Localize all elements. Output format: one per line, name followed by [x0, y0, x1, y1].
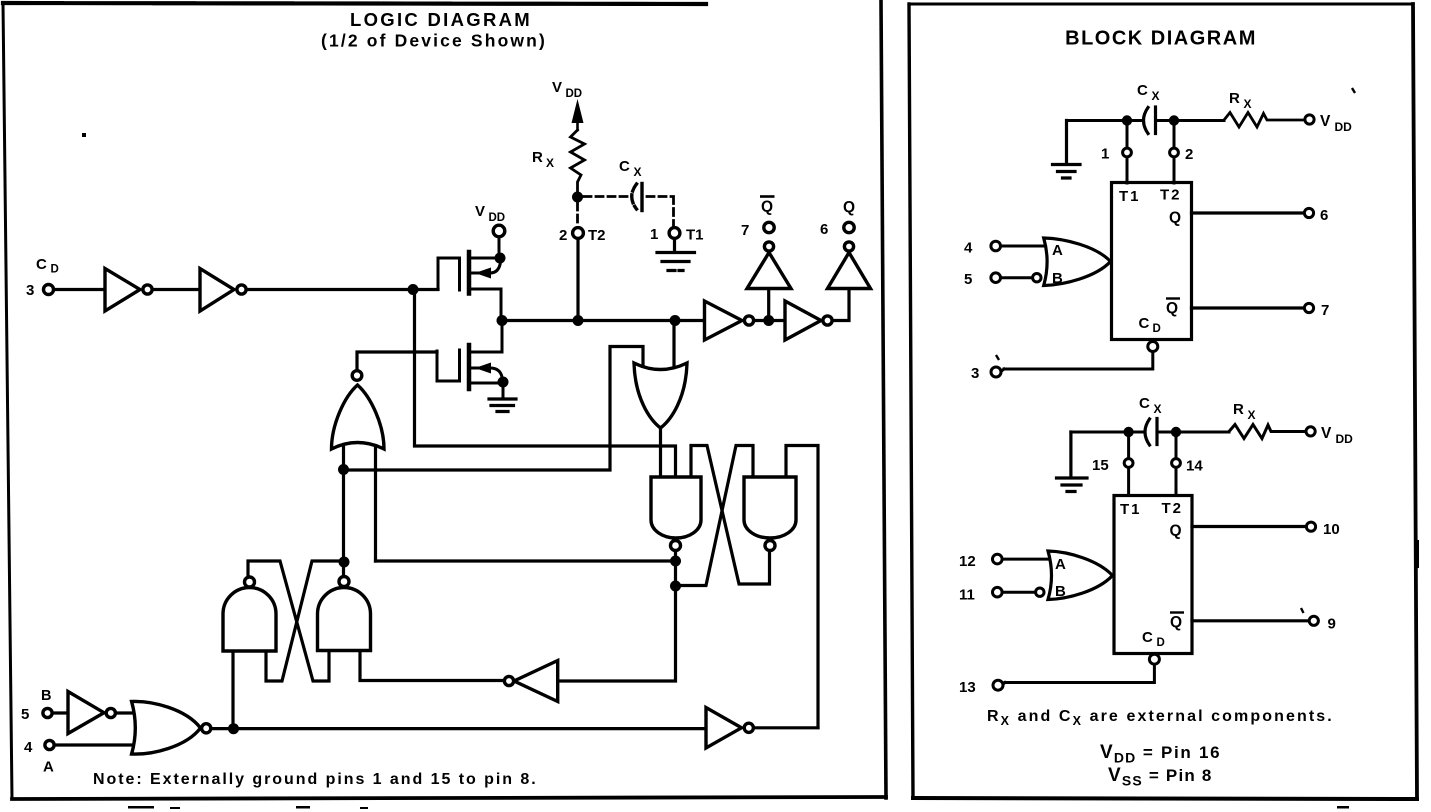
svg-text:Q: Q	[1170, 614, 1182, 631]
VDD arrowhead	[572, 99, 584, 123]
node CD-gate junction	[408, 284, 419, 295]
NAND LR (up)	[318, 588, 371, 651]
svg-text:T2: T2	[1162, 500, 1184, 517]
block 1	[1112, 183, 1192, 340]
inverter CD-2	[200, 269, 234, 312]
svg-text:DD: DD	[1336, 432, 1354, 446]
svg-text:V: V	[1320, 113, 1331, 130]
PMOS bulk lead	[470, 262, 501, 273]
bubble B input block1	[1033, 274, 1041, 282]
NMOS bulk arrowhead	[475, 363, 491, 374]
inverter bottom	[706, 708, 742, 749]
ground under T1	[657, 239, 695, 271]
svg-text:3: 3	[971, 365, 979, 382]
terminal pin 7	[1304, 303, 1313, 312]
svg-text:V: V	[1321, 425, 1332, 442]
svg-text:T1: T1	[1119, 188, 1141, 205]
inverter CD-1	[105, 269, 140, 312]
svg-text:C: C	[619, 158, 630, 175]
svg-text:T2: T2	[588, 227, 606, 244]
svg-text:A: A	[43, 759, 54, 776]
node lower latch top	[339, 557, 350, 568]
capacitor CX curved plate	[632, 184, 637, 209]
svg-text:11: 11	[959, 587, 975, 604]
wire: junction down and across to UL NAND input	[415, 290, 676, 478]
PMOS source lead	[470, 237, 500, 258]
svg-text:T2: T2	[1160, 187, 1182, 204]
wire: lower right NAND right stub to L-inverter	[360, 651, 505, 681]
svg-text:4: 4	[24, 739, 33, 756]
svg-text:1: 1	[1101, 146, 1109, 163]
node input-NOR output tap	[228, 723, 239, 734]
block 2	[1114, 496, 1192, 654]
RX resistor vertical	[571, 130, 585, 193]
pin 1	[669, 228, 680, 239]
pin 13 terminal	[993, 680, 1003, 690]
vdd circle transistor	[493, 225, 505, 237]
bubble B input block2	[1036, 588, 1044, 596]
svg-text:15: 15	[1092, 457, 1109, 474]
svg-text:DD: DD	[489, 212, 506, 224]
inverter main-1	[705, 301, 743, 340]
svg-text:BLOCK DIAGRAM: BLOCK DIAGRAM	[1065, 28, 1257, 50]
CD stub down to pin3 run	[1001, 352, 1153, 372]
svg-text:D: D	[51, 264, 59, 276]
pin 2 terminal	[1170, 148, 1179, 157]
svg-text:5: 5	[964, 271, 972, 288]
svg-text:Q: Q	[843, 199, 855, 216]
svg-text:X: X	[634, 165, 642, 179]
node OR input tap	[670, 315, 681, 326]
wire: NOR left input column	[342, 441, 345, 577]
svg-text:9: 9	[1328, 616, 1336, 633]
resistor RX top	[1224, 113, 1305, 128]
svg-text:1: 1	[650, 226, 658, 243]
pin5 wire	[1001, 276, 1033, 279]
capacitor CX straight plate	[640, 184, 643, 211]
node latch feedback B	[670, 581, 681, 592]
pin12 wire	[1002, 558, 1049, 561]
Qbar wire to 7	[1192, 306, 1305, 309]
svg-text:Q: Q	[1166, 300, 1178, 317]
capacitor CX top: straight plate	[1154, 107, 1157, 134]
svg-text:(1/2 of Device Shown): (1/2 of Device Shown)	[321, 31, 547, 51]
node T2 tap	[573, 315, 584, 326]
pin 15 stub	[1127, 432, 1130, 496]
svg-text:7: 7	[1321, 302, 1329, 319]
inverter main-2	[785, 301, 821, 340]
CD2 stub down to pin13 run	[1002, 664, 1154, 685]
inverter left-pointing	[514, 661, 558, 702]
wire: A input	[54, 743, 136, 746]
dashed wire to CX	[584, 195, 627, 198]
speck artifact	[82, 133, 86, 137]
svg-text:V: V	[552, 79, 562, 96]
pin 3	[44, 285, 54, 295]
svg-text:Note: Externally ground pins: Note: Externally ground pins 1 and 15 to…	[93, 771, 538, 788]
svg-text:4: 4	[964, 240, 973, 257]
VDD arrow top	[576, 122, 579, 130]
NMOS channel	[467, 345, 472, 389]
pin 14 stub	[1175, 432, 1178, 496]
svg-text:D: D	[1157, 637, 1165, 649]
svg-text:6: 6	[1320, 207, 1328, 224]
inverter Qbar (up)	[747, 253, 791, 289]
pin 1 terminal	[1123, 148, 1132, 157]
node PMOS source/VDD	[495, 253, 506, 264]
resistor RX bottom	[1229, 425, 1306, 439]
dashed wire CX to T1	[647, 197, 674, 227]
pin 11 terminal	[993, 587, 1003, 597]
wire: lower latch cross couple	[248, 561, 344, 681]
CD pin circle block2	[1149, 654, 1159, 664]
svg-text:10: 10	[1323, 521, 1340, 538]
wire: main output line	[501, 289, 849, 321]
svg-text:C: C	[36, 256, 47, 273]
wire: UR NAND cross couple D2	[676, 446, 754, 586]
wire: UL NAND cross couple D1	[691, 446, 770, 585]
svg-text:A: A	[1055, 556, 1066, 573]
svg-text:3: 3	[26, 282, 34, 299]
svg-text:DD: DD	[566, 88, 583, 100]
svg-text:D: D	[1153, 323, 1161, 335]
wire: main to OR right input	[672, 321, 675, 367]
node CX right block1	[1169, 115, 1179, 125]
terminal pin 10	[1306, 522, 1315, 531]
node latch feedback A	[670, 556, 681, 567]
left panel frame	[3, 3, 12, 799]
svg-text:6: 6	[820, 221, 828, 238]
pin 3 terminal	[991, 367, 1001, 377]
scan specks below bottom border	[128, 806, 154, 809]
wire: B inverter input	[52, 711, 136, 714]
svg-text:7: 7	[741, 222, 749, 239]
capacitor CX bottom	[1145, 419, 1150, 445]
NAND LL (up)	[223, 588, 276, 652]
svg-text:DD: DD	[1335, 120, 1353, 134]
pin 1 stub	[1126, 121, 1129, 184]
NAND UL (down)	[651, 477, 701, 538]
terminal VDD block2	[1306, 427, 1315, 436]
wire: bottom NOR output long run	[211, 727, 706, 730]
svg-text:X: X	[1248, 408, 1256, 422]
svg-text:LOGIC DIAGRAM: LOGIC DIAGRAM	[350, 9, 532, 30]
NOR gate bottom-left	[132, 701, 201, 754]
node CX right block2	[1171, 427, 1181, 437]
svg-text:2: 2	[559, 227, 567, 244]
svg-text:Q: Q	[1170, 523, 1182, 540]
inverter B input	[68, 692, 104, 734]
node CX left block2	[1123, 427, 1133, 437]
svg-text:T1: T1	[1120, 501, 1142, 518]
capacitor CX top: curved plate	[1144, 108, 1149, 134]
pin 2 stub	[1173, 121, 1176, 184]
terminal pin 9	[1309, 616, 1318, 625]
svg-text:2: 2	[1185, 146, 1193, 163]
Q wire to 6	[1192, 211, 1305, 214]
pin 15 terminal	[1124, 459, 1133, 468]
PMOS gate staple	[438, 258, 460, 290]
PMOS drain lead	[470, 289, 501, 321]
terminal pin 6	[1304, 208, 1313, 217]
wire: CD input to junction	[54, 288, 438, 291]
pin11 wire	[1002, 591, 1036, 594]
svg-text:Q: Q	[761, 199, 773, 216]
CD pin circle block1	[1148, 342, 1158, 352]
svg-text:X: X	[546, 156, 554, 170]
wire: OR upper left input	[344, 347, 644, 471]
wire: Qbar tap	[767, 289, 770, 321]
bottom block: ground + wire	[1057, 432, 1088, 492]
node Qbar tap	[763, 315, 774, 326]
node RX/CX junction	[572, 192, 583, 203]
svg-text:R: R	[1229, 90, 1240, 107]
pin 4 terminal	[991, 241, 1001, 251]
node NOR input tap	[338, 464, 349, 475]
Q wire to 10	[1192, 525, 1306, 528]
OR gate 2	[1048, 551, 1113, 600]
svg-text:13: 13	[959, 679, 976, 696]
svg-text:X: X	[1154, 402, 1162, 416]
svg-text:C: C	[1139, 315, 1150, 332]
wire: UL NAND output down to inverter	[558, 551, 676, 681]
svg-text:B: B	[1052, 270, 1063, 287]
Qbar overbars right panel	[1166, 297, 1180, 299]
wire: lower latch left stub down	[231, 651, 234, 729]
node transistor output	[497, 315, 508, 326]
NOR gate up (middle)	[332, 385, 385, 449]
ground under NMOS	[489, 399, 516, 412]
pin4 wire	[1001, 245, 1046, 248]
wire: T2 pin down to main line	[576, 239, 579, 321]
svg-text:T1: T1	[686, 227, 704, 244]
NAND UR (down)	[744, 477, 796, 538]
dashed wire dot to T2	[576, 203, 579, 227]
wire cap to resistor	[1156, 119, 1224, 122]
NMOS source lead	[470, 382, 503, 398]
svg-text:X: X	[1152, 89, 1160, 103]
svg-text:12: 12	[959, 553, 976, 570]
svg-text:C: C	[1137, 82, 1148, 99]
right panel frame	[909, 4, 913, 798]
pin 5	[43, 708, 52, 717]
inverter Q (up)	[828, 253, 871, 289]
wire: bottom inverter output feedback	[753, 726, 818, 729]
NMOS drain lead	[470, 321, 502, 353]
node CX left block1	[1122, 115, 1132, 125]
svg-text:R: R	[532, 149, 543, 166]
OR gate 1	[1044, 238, 1111, 286]
svg-text:A: A	[1052, 242, 1063, 259]
svg-text:5: 5	[21, 706, 29, 723]
pin 12 terminal	[993, 554, 1003, 564]
NMOS gate staple	[437, 350, 460, 381]
pin 4	[45, 740, 54, 749]
NMOS bulk lead	[470, 368, 502, 377]
terminal VDD block1	[1305, 115, 1314, 124]
Qbar overbar	[760, 195, 775, 198]
svg-text:B: B	[1055, 583, 1066, 600]
wire: NOR output to NMOS gate	[357, 352, 437, 371]
PMOS bulk arrowhead	[475, 268, 491, 279]
wire: latch node to NOR right input	[376, 559, 676, 562]
PMOS channel	[467, 252, 472, 294]
svg-text:Q: Q	[1169, 210, 1181, 227]
pin 5 terminal	[991, 273, 1001, 283]
svg-text:V: V	[475, 203, 485, 220]
svg-text:R: R	[1233, 401, 1244, 418]
wire: UR NAND right input from feedback	[786, 446, 818, 728]
svg-text:C: C	[1139, 395, 1150, 412]
svg-text:X: X	[1244, 97, 1252, 111]
OR gate down	[634, 363, 687, 428]
svg-text:14: 14	[1186, 458, 1203, 475]
top block: ground + wire to cap	[1053, 121, 1081, 179]
svg-text:C: C	[1142, 629, 1153, 646]
pin 2	[573, 228, 584, 239]
node NMOS source/ground	[498, 377, 509, 388]
Qbar wire to 9	[1192, 619, 1308, 622]
wire: OR output to UL NAND	[659, 428, 662, 477]
pin 14 terminal	[1172, 459, 1181, 468]
apostrophe artifacts	[1352, 88, 1355, 93]
svg-text:B: B	[41, 688, 51, 704]
wire: NOR right input	[374, 441, 377, 561]
